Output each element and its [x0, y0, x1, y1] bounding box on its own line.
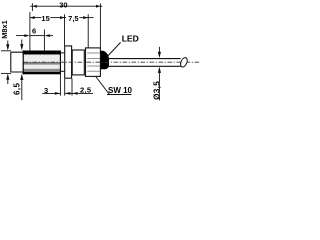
30 dimension — [30, 0, 102, 47]
centerline — [24, 61, 200, 63]
svg-text:3: 3 — [44, 86, 48, 95]
sensor tip outline — [10, 52, 23, 72]
cable — [107, 59, 180, 67]
gland — [86, 48, 101, 77]
2,5 dimension — [72, 79, 93, 96]
svg-text:7,5: 7,5 — [68, 14, 78, 23]
ext line crest top — [1, 50, 11, 52]
6,5 dimension — [12, 40, 23, 101]
thread (hatched) — [23, 50, 61, 74]
LED label and leader — [107, 34, 139, 57]
3 dimension — [42, 74, 71, 96]
svg-text:6,5: 6,5 — [12, 83, 21, 95]
svg-text:Ø3,5: Ø3,5 — [152, 81, 161, 100]
SW 10 label — [96, 77, 133, 96]
ext line crest bottom — [1, 72, 11, 74]
svg-text:15: 15 — [41, 14, 49, 23]
hex nut SW10 — [65, 46, 72, 78]
svg-text:LED: LED — [122, 34, 139, 44]
6 dimension — [16, 12, 53, 50]
washer collar — [72, 50, 84, 75]
7,5 dimension — [65, 14, 94, 48]
LED black boot — [101, 51, 109, 69]
15 dimension — [30, 14, 65, 23]
svg-text:2,5: 2,5 — [80, 86, 91, 95]
gland slots — [87, 53, 100, 71]
svg-text:30: 30 — [59, 0, 67, 9]
diameter 3,5 dimension — [152, 47, 161, 101]
svg-text:6: 6 — [32, 27, 36, 36]
svg-text:M8x1: M8x1 — [0, 20, 9, 39]
M8x1 dimension — [0, 20, 9, 84]
neck lines — [60, 52, 64, 54]
svg-text:SW 10: SW 10 — [108, 86, 133, 95]
cable end ellipse — [179, 57, 188, 68]
